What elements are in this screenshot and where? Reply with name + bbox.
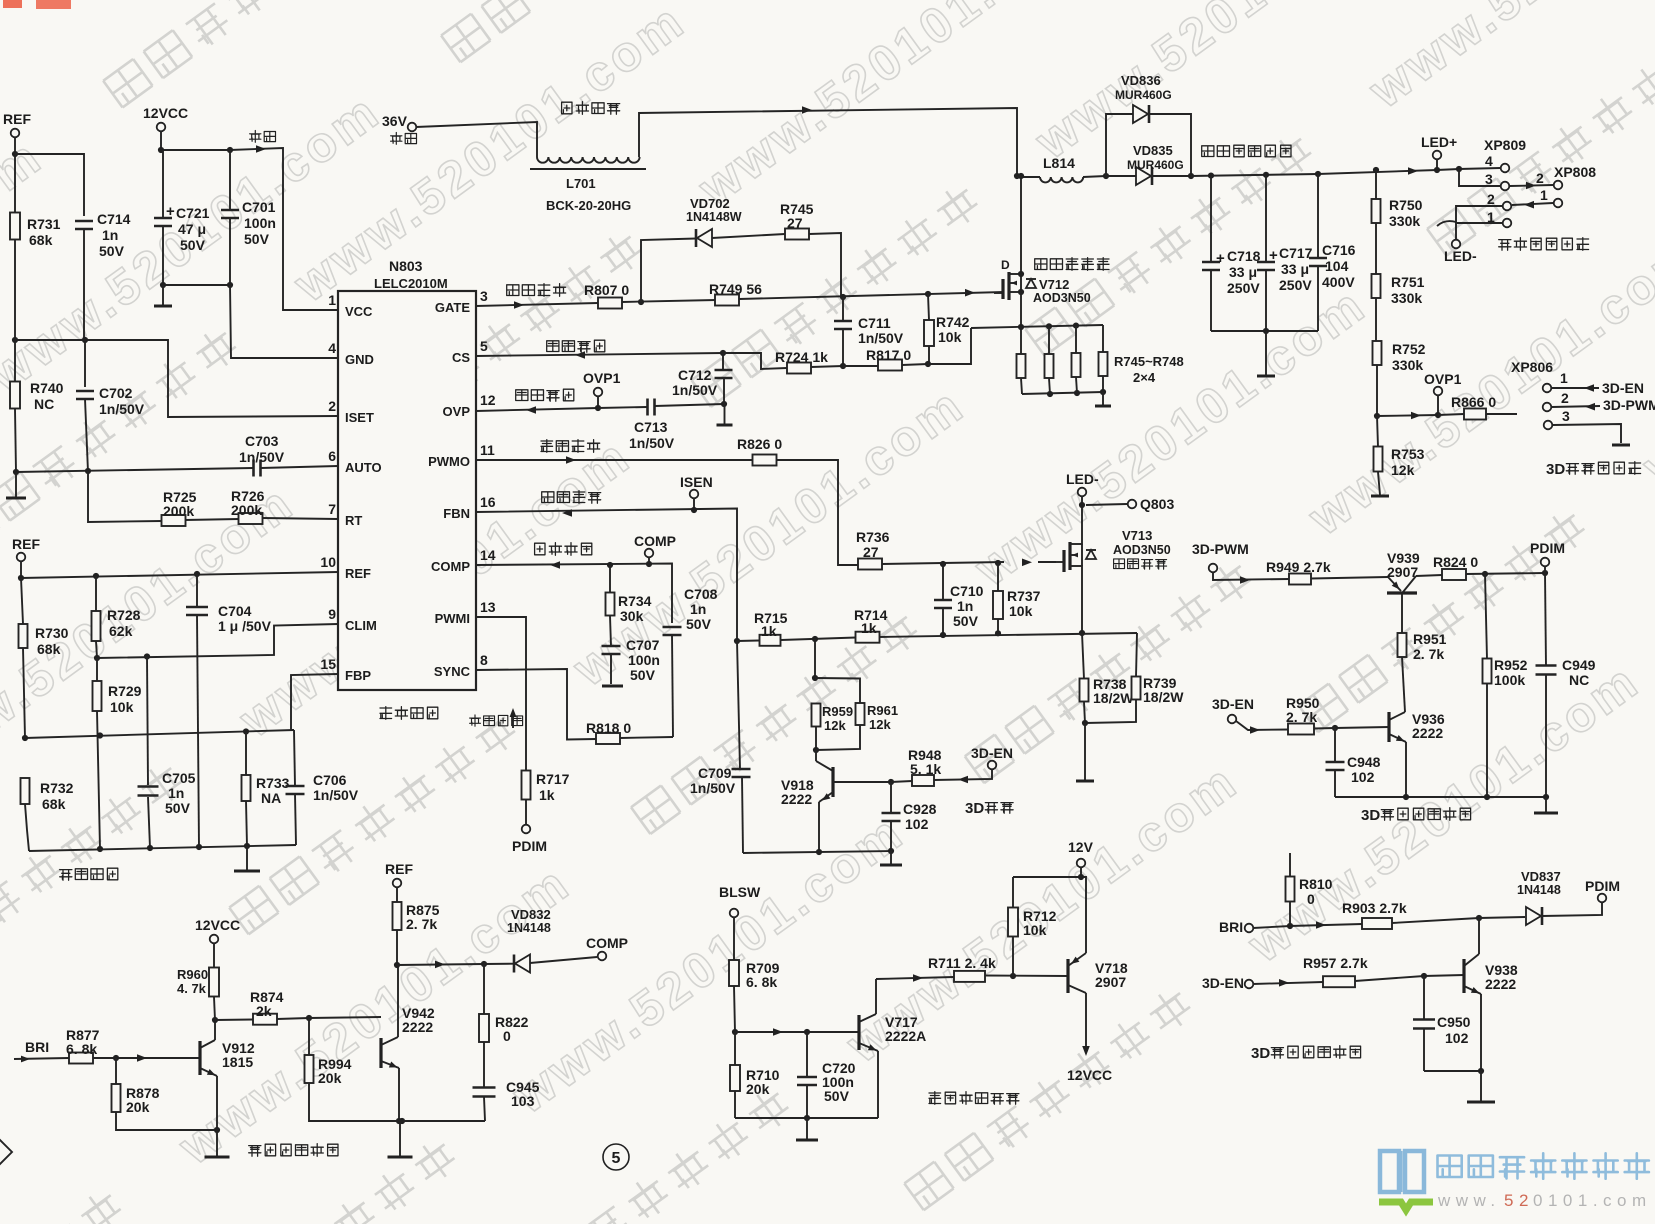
svg-text:CS: CS <box>452 350 470 365</box>
logo text <box>1438 1153 1649 1178</box>
svg-text:10: 10 <box>320 554 336 570</box>
junction <box>158 147 164 153</box>
svg-text:C706: C706 <box>313 772 347 788</box>
svg-text:15: 15 <box>320 656 336 672</box>
wire base V936 <box>1335 727 1389 728</box>
svg-text:VD837: VD837 <box>1521 869 1561 884</box>
svg-text:REF: REF <box>12 536 40 552</box>
transistor V718 PNP <box>1068 953 1128 1056</box>
svg-text:13: 13 <box>480 599 496 615</box>
capacitor C705 <box>138 657 196 849</box>
junction <box>925 291 931 297</box>
resistor R822 <box>479 964 529 1087</box>
junction <box>840 363 846 369</box>
arrow <box>256 145 266 153</box>
pin 1 XP809 <box>1456 209 1511 240</box>
resistor R732 <box>21 778 74 851</box>
svg-text:12V: 12V <box>1068 839 1094 855</box>
resistor R866 <box>1438 394 1517 420</box>
svg-text:14: 14 <box>480 547 496 563</box>
svg-text:OVP1: OVP1 <box>583 370 621 386</box>
svg-text:68k: 68k <box>37 641 61 657</box>
resistor R960 <box>177 943 219 1020</box>
label 升压整流滤波 <box>1202 145 1291 157</box>
svg-text:GATE: GATE <box>435 300 470 315</box>
junction <box>306 1015 312 1021</box>
terminal BLSW <box>719 884 761 917</box>
svg-text:BLSW: BLSW <box>719 884 761 900</box>
svg-text:1N4148W: 1N4148W <box>686 210 742 224</box>
hook arc <box>1437 221 1456 226</box>
capacitor C703 <box>239 433 285 477</box>
label 供电 <box>250 131 276 143</box>
terminal 3D-PWM <box>1192 541 1249 572</box>
svg-text:12VCC: 12VCC <box>195 917 240 933</box>
svg-text:COMP: COMP <box>431 559 470 574</box>
resistor R749 <box>709 281 762 306</box>
wire OVP1 row <box>1377 415 1438 416</box>
svg-text:SYNC: SYNC <box>434 664 471 679</box>
svg-text:C948: C948 <box>1347 754 1381 770</box>
resistor R729 <box>93 658 142 849</box>
wire <box>14 137 16 340</box>
junction <box>1421 973 1427 979</box>
junction <box>394 962 400 968</box>
svg-text:200k: 200k <box>163 503 194 519</box>
svg-text:2. 7k: 2. 7k <box>406 916 437 932</box>
svg-text:PWMO: PWMO <box>428 454 470 469</box>
svg-text:102: 102 <box>905 816 929 832</box>
transistor V936 <box>1389 711 1445 797</box>
svg-text:R745~R748: R745~R748 <box>1114 354 1184 369</box>
junction <box>1373 167 1379 173</box>
wire rail <box>1191 168 1500 176</box>
wire source bus <box>971 325 1103 328</box>
svg-text:1: 1 <box>1560 370 1568 386</box>
svg-text:8: 8 <box>480 652 488 668</box>
capacitor C721 <box>154 150 210 285</box>
svg-text:50V: 50V <box>630 667 656 683</box>
label 3D控制 <box>965 800 1013 817</box>
capacitor C709 <box>690 641 751 853</box>
resistor R948 <box>891 747 992 786</box>
svg-text:1: 1 <box>328 292 336 308</box>
svg-text:47 μ: 47 μ <box>178 221 206 237</box>
svg-text:R711 2. 4k: R711 2. 4k <box>928 955 996 971</box>
pin 11 PWMO <box>428 442 495 469</box>
IC N803 LELC2010M <box>338 258 476 690</box>
svg-text:C708: C708 <box>684 586 718 602</box>
junction <box>816 848 894 855</box>
svg-text:4: 4 <box>328 340 336 356</box>
pin 13 PWMI <box>435 599 496 626</box>
svg-text:XP806: XP806 <box>1511 359 1553 375</box>
svg-text:C705: C705 <box>162 770 196 786</box>
wire row <box>737 633 1137 641</box>
capacitor C711 <box>834 297 904 366</box>
resistor R728 <box>92 576 141 658</box>
junction <box>1482 570 1548 577</box>
diode VD836 <box>1106 73 1191 176</box>
arrow <box>1316 921 1326 929</box>
wire <box>309 1017 381 1018</box>
svg-text:R810: R810 <box>1299 876 1333 892</box>
svg-text:C709: C709 <box>698 765 732 781</box>
svg-text:PDIM: PDIM <box>1530 540 1565 556</box>
wire <box>163 284 230 286</box>
svg-text:10k: 10k <box>938 329 962 345</box>
svg-text:R826 0: R826 0 <box>737 436 782 452</box>
resistor R824 <box>1416 554 1545 580</box>
pin 7 RT <box>328 501 362 528</box>
svg-text:MUR460G: MUR460G <box>1115 88 1172 102</box>
junction <box>1079 630 1085 636</box>
ground <box>154 285 172 306</box>
resistor R738 <box>1080 633 1135 723</box>
arrow <box>526 406 536 414</box>
svg-text:+: + <box>1216 250 1225 267</box>
svg-text:AOD3N50: AOD3N50 <box>1113 543 1171 557</box>
svg-text:12: 12 <box>480 392 496 408</box>
wire OVP <box>476 408 598 411</box>
svg-text:R749 56: R749 56 <box>709 281 762 297</box>
ground <box>1076 723 1094 781</box>
svg-text:33 μ: 33 μ <box>1281 261 1309 277</box>
resistor R752 <box>1373 341 1426 416</box>
ground <box>1534 797 1558 813</box>
svg-text:1n/50V: 1n/50V <box>313 787 359 803</box>
svg-text:250V: 250V <box>1227 280 1260 296</box>
wire gate <box>1038 561 1056 563</box>
resistor R817 <box>843 347 928 371</box>
diode VD702 branch <box>641 196 785 302</box>
transistor V912 <box>200 1020 255 1130</box>
resistor R750 <box>1372 170 1423 275</box>
resistor R736 <box>856 529 1004 570</box>
svg-text:C711: C711 <box>858 315 891 331</box>
svg-text:www.520101.com: www.520101.com <box>562 376 975 697</box>
svg-text:XP808: XP808 <box>1554 164 1596 180</box>
svg-text:C703: C703 <box>245 433 279 449</box>
junction <box>607 562 613 568</box>
svg-text:18/2W: 18/2W <box>1093 690 1134 706</box>
svg-text:2222: 2222 <box>781 791 812 807</box>
svg-text:1n: 1n <box>168 785 184 801</box>
wire source <box>1018 289 1024 327</box>
pin 2 XP808 <box>1536 170 1562 189</box>
resistor R726 <box>231 488 265 524</box>
terminal 12VCC 2 <box>195 917 240 943</box>
wire <box>15 340 338 417</box>
arrow <box>1411 412 1421 420</box>
svg-text:12k: 12k <box>1391 462 1415 478</box>
svg-text:5. 1k: 5. 1k <box>910 761 941 777</box>
svg-text:1 μ /50V: 1 μ /50V <box>218 618 272 634</box>
svg-text:102: 102 <box>1445 1030 1469 1046</box>
svg-text:NC: NC <box>1569 672 1589 688</box>
svg-text:R731: R731 <box>27 216 61 232</box>
wire AUTO <box>16 466 338 472</box>
svg-text:R752: R752 <box>1392 341 1426 357</box>
resistor R711 <box>928 955 996 982</box>
svg-text:FBN: FBN <box>443 506 470 521</box>
svg-text:12VCC: 12VCC <box>1067 1067 1112 1083</box>
svg-text:D: D <box>1001 258 1010 272</box>
junction <box>888 779 894 785</box>
svg-text:3: 3 <box>1562 408 1570 424</box>
junction <box>1010 973 1016 979</box>
svg-text:2: 2 <box>1561 390 1569 406</box>
terminal COMP 2 <box>586 935 628 960</box>
resistor R733 <box>242 732 290 847</box>
svg-text:C949: C949 <box>1562 657 1596 673</box>
wire GATE <box>476 292 1004 306</box>
svg-text:1: 1 <box>1540 187 1548 203</box>
wire supply <box>161 131 338 310</box>
svg-text:REF: REF <box>345 566 371 581</box>
resistor R875 <box>393 887 440 965</box>
resistor R725 <box>162 489 197 526</box>
svg-text:18/2W: 18/2W <box>1143 689 1184 705</box>
resistor R734 <box>606 565 652 646</box>
inductor L814 <box>1017 155 1106 182</box>
pin 14 COMP <box>431 547 496 574</box>
pin 2 XP806 <box>1543 390 1655 413</box>
ground <box>234 846 260 871</box>
junction <box>18 571 200 581</box>
svg-text:10k: 10k <box>1023 922 1047 938</box>
resistor R959 <box>812 639 854 753</box>
junction <box>925 361 931 367</box>
svg-text:C701: C701 <box>242 199 276 215</box>
svg-text:36V: 36V <box>382 113 408 129</box>
svg-text:C950: C950 <box>1437 1014 1471 1030</box>
svg-text:2. 7k: 2. 7k <box>1413 646 1444 662</box>
label 3D控制连接器 <box>1546 461 1641 478</box>
svg-text:GND: GND <box>345 352 374 367</box>
svg-text:50V: 50V <box>824 1088 850 1104</box>
pin 4 GND <box>328 340 374 367</box>
wire CS <box>476 353 723 356</box>
resistor R710 <box>730 1032 780 1118</box>
capacitor C720 <box>797 1032 856 1118</box>
svg-text:2: 2 <box>328 398 336 414</box>
junction <box>214 1127 220 1133</box>
label 电流反馈 <box>542 491 601 504</box>
svg-text:1n/50V: 1n/50V <box>858 330 904 346</box>
wire PWMO <box>476 460 859 565</box>
svg-text:2222: 2222 <box>1412 725 1443 741</box>
capacitor C714 <box>75 211 131 340</box>
svg-text:OVP1: OVP1 <box>1424 371 1462 387</box>
svg-text:N803: N803 <box>389 258 423 274</box>
terminal REF 2 <box>12 536 40 561</box>
arrow <box>958 776 968 784</box>
resistor bank R745-R748 <box>1017 325 1184 394</box>
resistor R745 <box>780 201 841 297</box>
svg-text:C712: C712 <box>678 367 712 383</box>
junction <box>212 1017 218 1023</box>
svg-text:V713: V713 <box>1122 528 1152 543</box>
svg-text:Q803: Q803 <box>1140 496 1174 512</box>
terminal PDIM 3 <box>1585 878 1620 902</box>
svg-text:www.520101.com: www.520101.com <box>1358 0 1655 119</box>
svg-text:R866 0: R866 0 <box>1451 394 1496 410</box>
label 均流驱动 <box>541 440 600 453</box>
wire from XP808 pin1 <box>1512 201 1553 209</box>
capacitor C718 <box>1202 173 1261 332</box>
junction <box>720 350 726 356</box>
svg-text:R737: R737 <box>1007 588 1041 604</box>
svg-text:COMP: COMP <box>634 533 676 549</box>
terminal PDIM <box>512 825 547 854</box>
capacitor C708 <box>663 586 718 737</box>
wire V717 bottom <box>735 1117 878 1119</box>
svg-text:3D-EN: 3D-EN <box>971 745 1013 761</box>
svg-text:XP809: XP809 <box>1484 137 1526 153</box>
resistor R818 <box>586 720 673 744</box>
svg-text:1815: 1815 <box>222 1054 253 1070</box>
transistor V717 <box>859 979 926 1118</box>
capacitor C713 <box>598 399 724 452</box>
svg-text:C718: C718 <box>1227 248 1261 264</box>
svg-text:R949 2.7k: R949 2.7k <box>1266 559 1331 575</box>
diode VD837 <box>1479 869 1602 925</box>
label 驱动电路 <box>380 707 438 720</box>
pin 10 REF <box>320 554 371 581</box>
svg-text:C713: C713 <box>634 419 668 435</box>
resistor R957 <box>1303 955 1368 987</box>
resistor R731 <box>10 213 61 249</box>
svg-text:12k: 12k <box>824 718 846 733</box>
junction <box>85 468 91 474</box>
wire source <box>1081 565 1083 633</box>
svg-text:2222A: 2222A <box>885 1028 926 1044</box>
junction <box>1403 794 1549 800</box>
svg-text:www.: www. <box>1437 1191 1501 1210</box>
svg-text:R740: R740 <box>30 380 64 396</box>
junction <box>227 147 233 153</box>
svg-text:VD835: VD835 <box>1133 143 1173 158</box>
junction <box>97 843 250 852</box>
wire PWMI <box>476 617 526 770</box>
svg-text:LED+: LED+ <box>1421 134 1457 150</box>
svg-text:7: 7 <box>328 501 336 517</box>
resistor R826 <box>737 436 782 466</box>
junction <box>113 1055 119 1061</box>
pin 9 CLIM <box>328 606 377 633</box>
svg-text:AUTO: AUTO <box>345 460 382 475</box>
svg-text:0101.com: 0101.com <box>1533 1191 1652 1210</box>
svg-text:PDIM: PDIM <box>1585 878 1620 894</box>
resistor R874 <box>215 989 309 1025</box>
resistor R709 <box>729 917 780 1032</box>
svg-text:C714: C714 <box>97 211 131 227</box>
svg-text:L701: L701 <box>566 176 596 191</box>
svg-text:2222: 2222 <box>402 1019 433 1035</box>
ground <box>1257 331 1275 376</box>
arrow <box>913 974 923 982</box>
wire <box>397 964 484 965</box>
svg-text:C702: C702 <box>99 385 133 401</box>
capacitor C950 <box>1413 976 1471 1071</box>
resistor R715 <box>754 610 788 646</box>
svg-text:62k: 62k <box>109 623 133 639</box>
wire bank bottom <box>1022 392 1103 394</box>
svg-text:10k: 10k <box>110 699 134 715</box>
capacitor C707 <box>602 637 660 684</box>
svg-text:12VCC: 12VCC <box>143 105 188 121</box>
junction <box>840 294 846 300</box>
svg-text:R960: R960 <box>177 967 208 982</box>
svg-text:3D-PWM: 3D-PWM <box>1192 541 1249 557</box>
svg-text:CLIM: CLIM <box>345 618 377 633</box>
wire <box>1253 975 1464 984</box>
pin 8 SYNC <box>434 652 488 679</box>
wire FBN <box>476 509 737 642</box>
junction <box>12 151 18 157</box>
resistor R742 <box>924 294 970 364</box>
arrow <box>514 301 524 309</box>
svg-text:50V: 50V <box>99 243 125 259</box>
svg-text:52: 52 <box>1504 1191 1534 1210</box>
svg-text:3: 3 <box>1485 171 1493 187</box>
svg-text:2: 2 <box>1487 191 1495 207</box>
wire 3D1 bottom rail <box>1335 796 1546 798</box>
label 升压开关管 <box>1035 258 1109 271</box>
junction <box>1478 1068 1484 1074</box>
wire REF row <box>21 561 338 578</box>
ground <box>717 404 733 425</box>
svg-text:100n: 100n <box>244 215 276 231</box>
junction <box>1082 720 1088 726</box>
svg-text:1n/50V: 1n/50V <box>99 401 145 417</box>
resistor R903 <box>1342 900 1407 929</box>
junction drain-rail <box>1018 173 1024 179</box>
junction node REF/R740 <box>12 337 18 343</box>
wire to XP808 pin2 <box>1510 182 1553 190</box>
terminal 12VCC <box>143 105 188 131</box>
svg-text:1n/50V: 1n/50V <box>672 382 718 398</box>
svg-text:R751: R751 <box>1391 274 1425 290</box>
svg-text:400V: 400V <box>1322 274 1355 290</box>
terminal PDIM 2 <box>1530 540 1565 573</box>
terminal OVP1 <box>583 370 621 411</box>
ground <box>205 1130 230 1157</box>
junction <box>1332 725 1338 731</box>
wire <box>1211 330 1318 332</box>
junction <box>804 1115 810 1121</box>
svg-text:C710: C710 <box>950 583 984 599</box>
wire <box>416 122 537 157</box>
svg-text:VD836: VD836 <box>1121 73 1161 88</box>
svg-text:103: 103 <box>511 1093 535 1109</box>
red corner mark <box>3 0 71 9</box>
svg-text:R753: R753 <box>1391 446 1425 462</box>
svg-text:330k: 330k <box>1392 357 1423 373</box>
svg-text:6. 8k: 6. 8k <box>746 974 777 990</box>
svg-text:C717: C717 <box>1279 245 1313 261</box>
svg-text:5: 5 <box>480 338 488 354</box>
label 12VCC out <box>1067 1067 1112 1083</box>
wire SYNC <box>476 669 596 740</box>
capacitor C716 <box>1309 171 1356 331</box>
ground <box>602 685 623 688</box>
ground <box>388 1121 413 1157</box>
wire FBP row <box>25 674 338 738</box>
wire CLIM jog <box>97 624 338 658</box>
transistor V938 <box>1464 918 1518 1071</box>
